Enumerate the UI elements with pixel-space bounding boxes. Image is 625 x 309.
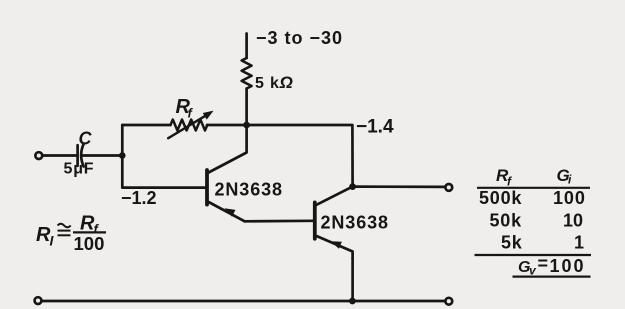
wire node A up bbox=[121, 125, 124, 156]
node C junction dot bbox=[349, 183, 356, 190]
Q1 emitter arrow bbox=[224, 208, 235, 216]
Q2 collector bbox=[317, 187, 353, 205]
svg-text:2N3638: 2N3638 bbox=[321, 213, 389, 233]
svg-text:500k: 500k bbox=[479, 188, 522, 208]
svg-text:−3 to −30: −3 to −30 bbox=[256, 28, 343, 48]
power wire -3 to -30 bbox=[245, 34, 248, 59]
wire Q1 emitter to Q2 base bbox=[245, 219, 314, 222]
node B junction dot bbox=[243, 122, 250, 129]
wire input to capacitor bbox=[42, 154, 76, 157]
table Rf / Gi bbox=[475, 166, 592, 278]
svg-text:100: 100 bbox=[550, 256, 586, 276]
wire node B to Q1 collector bbox=[209, 125, 247, 173]
bottom rail wire bbox=[42, 300, 445, 303]
svg-text:1: 1 bbox=[574, 233, 584, 253]
bottom left terminal bbox=[35, 297, 42, 304]
resistor Rf (variable) bbox=[168, 111, 213, 139]
transistor Q1 2N3638 base bar bbox=[205, 170, 209, 205]
svg-text:C: C bbox=[79, 129, 93, 149]
resistor 5k bbox=[242, 58, 252, 88]
Q1 emitter bbox=[209, 202, 245, 221]
wire Q2 emitter to bottom rail bbox=[351, 258, 354, 301]
formula RI = Rf/100 bbox=[36, 213, 106, 255]
capacitor C1 5uF bbox=[78, 144, 84, 167]
svg-text:5k: 5k bbox=[501, 233, 523, 253]
transistor Q2 2N3638 base bar bbox=[313, 202, 317, 238]
svg-text:100: 100 bbox=[74, 233, 105, 254]
wire node B right to corner bbox=[247, 125, 353, 187]
svg-text:2N3638: 2N3638 bbox=[215, 180, 283, 200]
wire Rf to node B bbox=[207, 124, 247, 127]
wire 5k to node B bbox=[245, 89, 248, 126]
svg-text:5 kΩ: 5 kΩ bbox=[255, 73, 294, 92]
node A junction dot bbox=[119, 152, 126, 159]
svg-text:−1.4: −1.4 bbox=[356, 117, 394, 138]
svg-text:100: 100 bbox=[553, 188, 586, 208]
svg-text:50k: 50k bbox=[490, 211, 523, 231]
wire node A down and right to Q1 base bbox=[122, 156, 205, 188]
input terminal bbox=[35, 152, 42, 159]
Q2 emitter arrow bbox=[331, 241, 342, 249]
wire top-left to resistor Rf bbox=[122, 124, 170, 127]
svg-text:−1.2: −1.2 bbox=[121, 188, 157, 208]
wire node C to output bbox=[353, 185, 445, 188]
wire capacitor to node A bbox=[83, 154, 123, 157]
label Rf bbox=[176, 96, 194, 121]
node D junction dot bbox=[349, 298, 356, 305]
bottom right terminal bbox=[445, 298, 452, 305]
Q2 emitter bbox=[317, 236, 353, 258]
svg-text:=: = bbox=[538, 254, 549, 274]
svg-text:10: 10 bbox=[563, 211, 583, 231]
output terminal top bbox=[445, 184, 452, 191]
svg-text:5μF: 5μF bbox=[64, 161, 95, 178]
